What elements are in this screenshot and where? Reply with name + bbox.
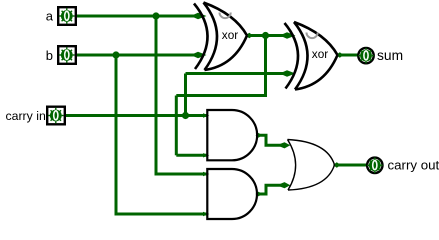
op AND gate U4	[207, 169, 257, 219]
wire xor1-out to AND1 lower input	[176, 154, 207, 157]
port wedge XOR2 upper input	[283, 32, 296, 38]
port wedge XOR1 input b	[194, 52, 207, 58]
port nub AND1 upper input	[203, 113, 209, 117]
wire carry in to XOR2 lower input	[186, 72, 284, 75]
svg-text:carry out: carry out	[388, 158, 439, 173]
wire XOR2 output to sum	[336, 54, 358, 57]
op XOR gate U1	[194, 3, 247, 71]
svg-text:carry in: carry in	[5, 109, 45, 123]
op AND gate U3	[207, 110, 257, 160]
port diamond XOR2 output	[336, 52, 344, 58]
output pin carry out	[367, 158, 383, 174]
port wedge XOR1 input a	[194, 13, 207, 19]
label sum	[377, 48, 403, 63]
label b	[46, 48, 53, 63]
label carry out	[388, 158, 439, 173]
wire a to AND2 upper input	[155, 173, 208, 176]
input pin b	[58, 46, 76, 64]
gray mark U2	[307, 33, 318, 39]
port nub AND2 lower input	[203, 212, 209, 216]
svg-text:xor: xor	[312, 47, 328, 61]
port diamond XOR1 output	[246, 33, 254, 39]
svg-text:sum: sum	[377, 48, 403, 63]
port wedge OR lower input	[281, 182, 291, 188]
wire xor1-out horizontal back	[176, 94, 267, 97]
svg-text:xor: xor	[222, 28, 238, 42]
gray mark U1	[220, 13, 231, 19]
wire AND1 output step	[257, 135, 284, 145]
node junction xor1 out	[262, 32, 269, 39]
wire XOR1 output to XOR2 upper input	[247, 34, 283, 37]
wire b branch vertical	[115, 55, 118, 214]
wire a branch vertical	[155, 16, 158, 174]
wire xor1-out vertical down	[175, 96, 178, 156]
port diamond AND2 output	[256, 192, 262, 197]
wire xor1-out branch vertical	[264, 36, 267, 96]
port diamond OR output	[333, 162, 341, 168]
label a	[46, 9, 54, 24]
wire carry in branch vertical	[184, 74, 187, 116]
port wedge OR upper input	[281, 142, 291, 148]
port diamond AND1 output	[256, 133, 262, 138]
output pin sum	[358, 48, 374, 64]
wire b to AND2 lower input	[115, 213, 208, 216]
node junction b	[112, 51, 119, 58]
wire a horizontal	[77, 15, 196, 18]
input pin a	[58, 7, 76, 25]
port nub AND1 lower input	[203, 153, 209, 157]
op XOR gate U2	[285, 22, 338, 90]
svg-text:b: b	[46, 48, 53, 63]
wire b horizontal	[77, 54, 196, 57]
svg-text:a: a	[46, 9, 54, 24]
node junction carry in	[182, 112, 189, 119]
label xor U1	[222, 28, 238, 42]
input pin carry in	[47, 107, 65, 125]
op OR gate U5	[288, 140, 335, 191]
port nub AND2 upper input	[203, 172, 209, 176]
wire OR output to carry out	[335, 164, 368, 167]
wire AND2 output step	[257, 185, 284, 194]
label xor U2	[312, 47, 328, 61]
wire carry in horizontal	[66, 114, 207, 117]
node junction a	[152, 12, 159, 19]
label carry in	[5, 109, 45, 123]
port wedge XOR2 lower input	[283, 70, 296, 76]
